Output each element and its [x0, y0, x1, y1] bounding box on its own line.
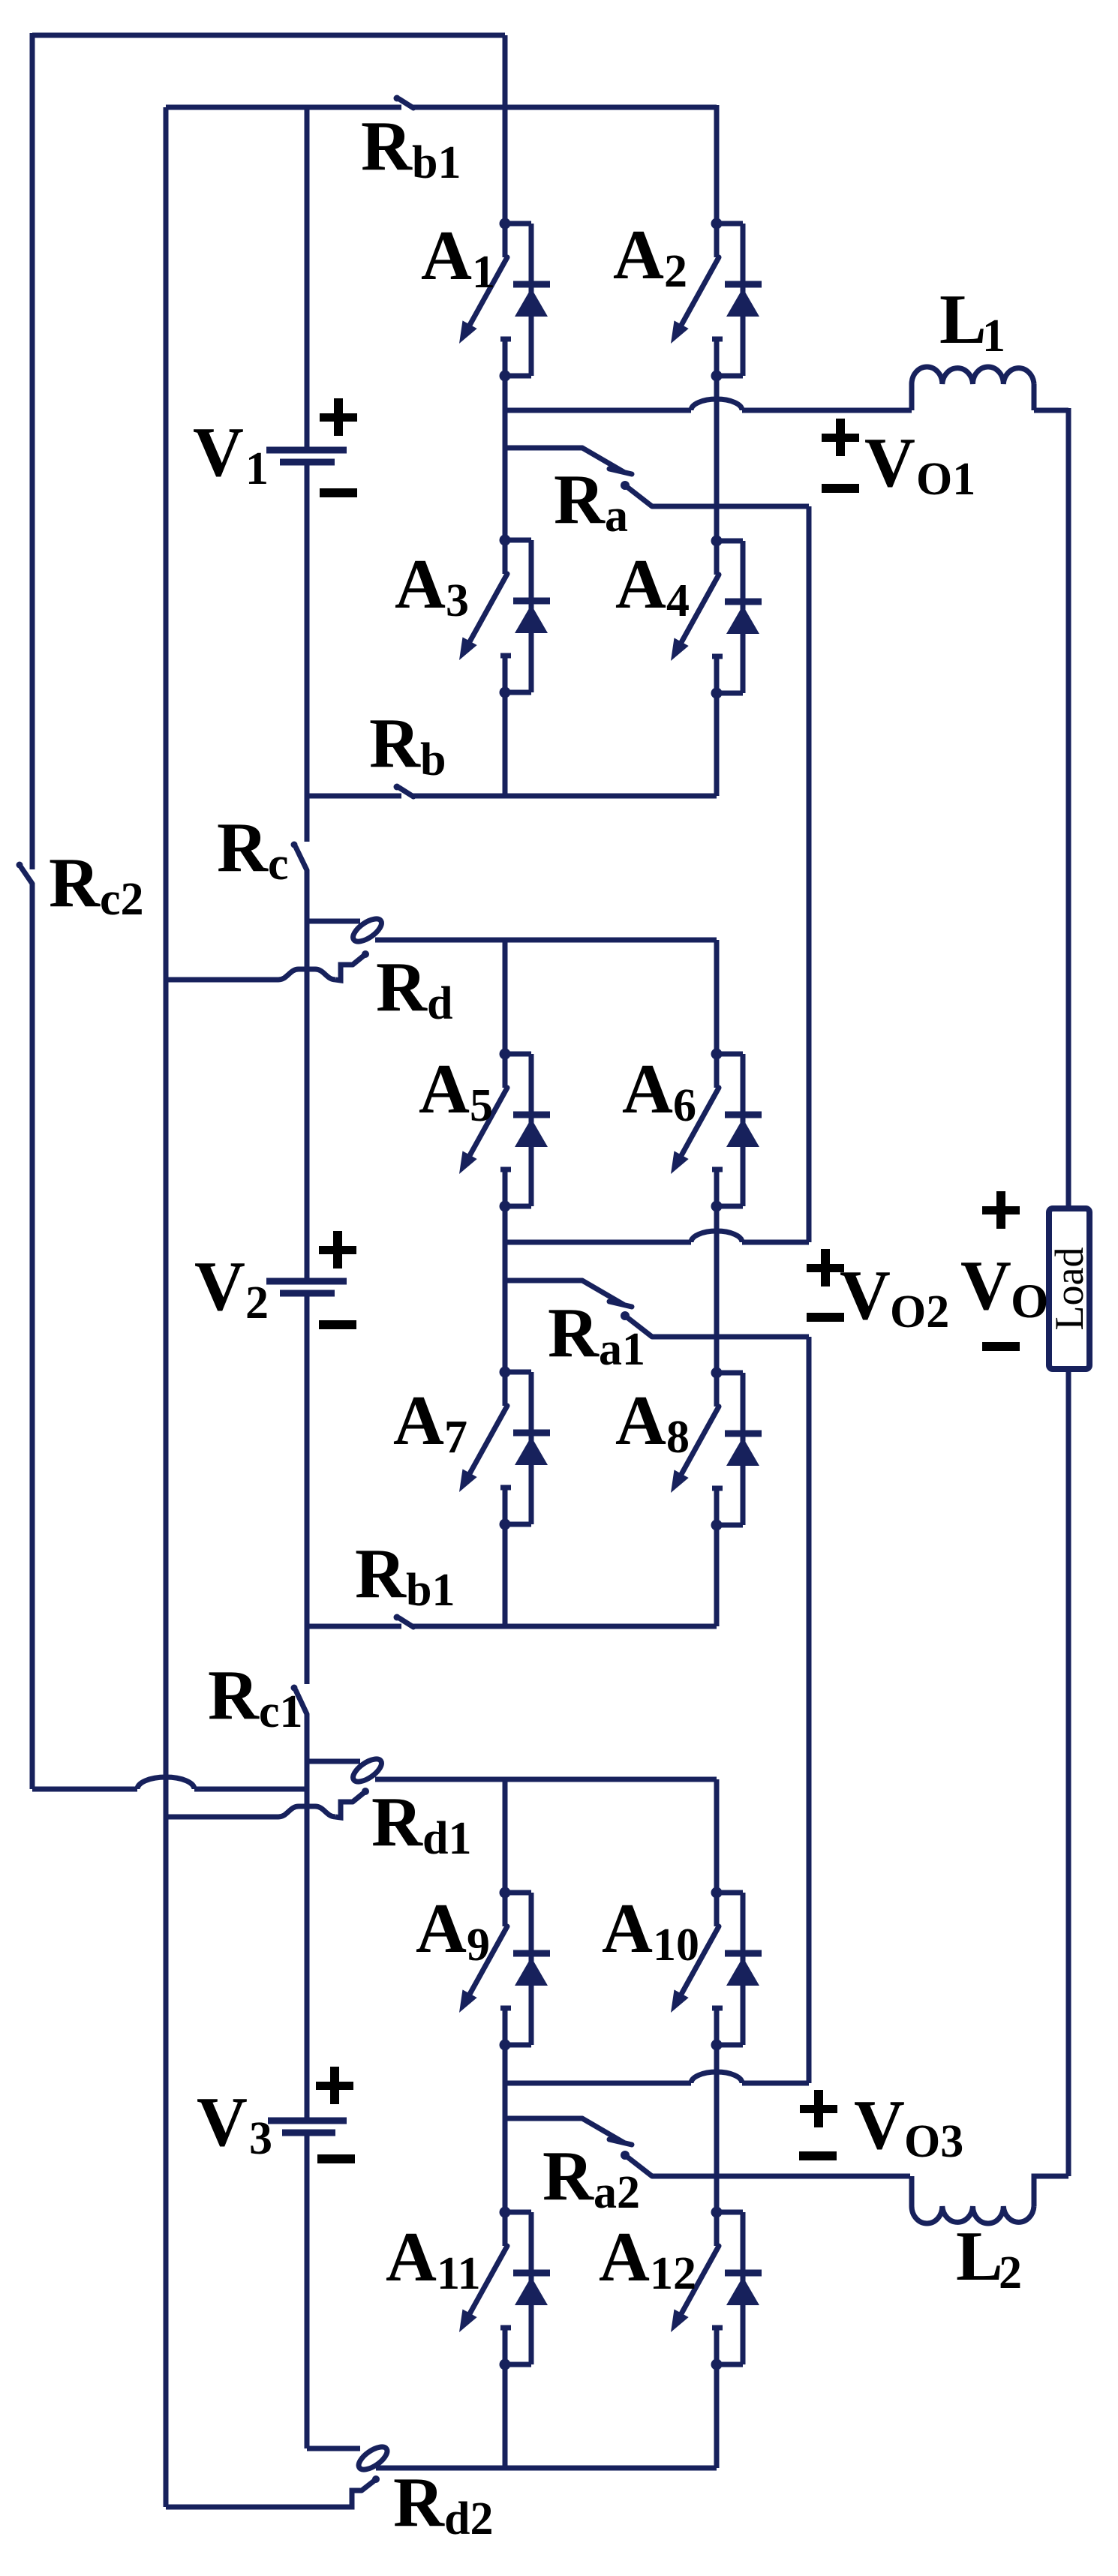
- VO1 minus sign: [822, 484, 859, 493]
- transistor A1: [459, 218, 550, 382]
- relay switch Rb1 (module2 bottom rail): [394, 1614, 414, 1628]
- wire right rail to load top: [1066, 408, 1071, 1208]
- transistor A6: [671, 1049, 762, 1212]
- wire line from Rc2 rail to battery column (hump over x221): [32, 1787, 137, 1792]
- wire Rd2 line from x221: [166, 2490, 362, 2507]
- transistor A5: [459, 1049, 550, 1212]
- wire A5 column drop: [503, 940, 508, 1054]
- wire out3 hop over x955: [691, 2072, 742, 2083]
- wire x673 A9-A11 link: [503, 2045, 508, 2212]
- wire A11 column to bottom rail: [503, 2364, 508, 2468]
- relay switch Rc1 (battery column): [291, 1685, 308, 1715]
- wire battery column Rc to V2: [305, 870, 310, 1278]
- wire L2 left riser: [909, 2176, 915, 2206]
- wire battery column Rc1 to V3: [305, 1714, 310, 2118]
- transistor A4: [671, 536, 762, 699]
- wire Rd line from x221: [166, 977, 278, 983]
- wire x673 A5-A7 link: [503, 1206, 508, 1372]
- wire Rd1 hump over x409: [278, 1806, 335, 1817]
- wire out1 to L1: [742, 408, 912, 413]
- relay switch Ra1 fixed contact: [582, 1280, 632, 1307]
- wire A4 column to Rb rail: [714, 692, 720, 796]
- wire module2 top rail: [375, 938, 717, 943]
- wire x955 A10-A12 link: [714, 2045, 720, 2212]
- battery V1 plus sign: [320, 398, 357, 436]
- wire L1 riser right: [1032, 384, 1037, 410]
- wire left outer rail x43 upper: [30, 33, 35, 869]
- relay switch Ra1 moving blade: [621, 1311, 652, 1337]
- relay switch Rb1 (top rail): [394, 95, 414, 109]
- transistor A7: [459, 1367, 550, 1530]
- wire line A hump over x221: [137, 1777, 194, 1789]
- wire out2 to series link: [742, 1240, 809, 1245]
- battery V2 plus sign: [319, 1231, 356, 1268]
- wire series link VO2- to VO3+: [807, 1337, 812, 2083]
- wire battery column V3 bottom to bottom loop: [305, 2136, 310, 2448]
- svg-text:Load: Load: [1047, 1247, 1092, 1331]
- load resistor box: [1049, 1208, 1089, 1369]
- wire A7 column to rail: [503, 1524, 508, 1626]
- wire Rb rail right: [412, 794, 717, 799]
- wire battery column V2 bottom to Rc1: [305, 1296, 310, 1684]
- wire Rd hump over x409: [278, 969, 335, 980]
- wire Ra out line: [652, 504, 809, 509]
- VO1 plus sign: [822, 419, 859, 456]
- wire battery column V1 top: [305, 107, 310, 447]
- battery V1 minus sign: [320, 488, 357, 497]
- wire A9 column drop: [503, 1779, 508, 1893]
- wire out3 left: [505, 2081, 691, 2086]
- relay switch Ra fixed contact: [582, 448, 632, 474]
- wire Rd1 step and blade lead: [335, 1802, 353, 1818]
- relay switch Rc2 (outer rail): [17, 862, 33, 884]
- VO3 plus sign: [800, 2090, 837, 2127]
- transistor A10: [671, 1887, 762, 2051]
- VO minus sign: [982, 1342, 1020, 1351]
- battery V2 minus sign: [319, 1320, 356, 1329]
- wire L1 to right rail: [1034, 408, 1068, 413]
- wire Rd1 line from x221: [166, 1815, 278, 1820]
- wire Ra2 out line to L2: [652, 2174, 910, 2179]
- battery V3 minus sign: [317, 2154, 355, 2163]
- VO3 minus sign: [799, 2151, 837, 2160]
- wire left outer rail x43 lower: [30, 884, 35, 1789]
- wire x673 top drop: [503, 35, 508, 224]
- wire battery column V1 bottom to Rb rail: [305, 465, 310, 842]
- relay switch Ra2 moving blade: [621, 2151, 652, 2176]
- wire A10 column drop: [714, 1779, 720, 1893]
- wire A3 column to Rb rail: [503, 692, 508, 796]
- wire x673 A1-A3 link: [503, 376, 508, 540]
- wire top rail y143 left of Rb1: [166, 105, 401, 110]
- battery V3 plus sign: [316, 2067, 353, 2104]
- transistor A12: [671, 2207, 762, 2370]
- wire Rd step and blade lead: [335, 965, 353, 980]
- relay switch Rb (module1 bottom rail): [394, 784, 414, 797]
- wire out2 hop over x955: [691, 1231, 742, 1242]
- battery V2: [266, 1281, 347, 1293]
- wire x955 A2-A4 link: [714, 376, 720, 541]
- relay switch Rd1 blade: [353, 1788, 369, 1802]
- wire x955 A6-A8 link: [714, 1206, 720, 1373]
- VO2 minus sign: [807, 1313, 844, 1322]
- relay switch Ra2 fixed contact: [582, 2118, 632, 2145]
- wire out1 left: [505, 408, 691, 413]
- wire x221 bottom corner: [164, 2504, 169, 2507]
- battery V3: [268, 2121, 347, 2133]
- wire inductor L1 coils: [912, 367, 1034, 384]
- wire out3 to series link: [742, 2081, 809, 2086]
- wire module3 top rail: [375, 1777, 717, 1782]
- wire top rail y47: [32, 33, 505, 38]
- wire series link VO1- to VO2+: [807, 506, 812, 1242]
- relay switch Ra moving blade: [621, 481, 652, 506]
- loop joint into bottom rail: [307, 2442, 391, 2474]
- transistor A11: [459, 2207, 550, 2370]
- transistor A3: [459, 535, 550, 698]
- wire Ra line left: [505, 446, 582, 451]
- VO plus sign: [982, 1191, 1020, 1229]
- VO2 plus sign: [807, 1249, 844, 1286]
- wire A8 column to rail: [714, 1524, 720, 1626]
- relay switch Rc (battery column): [291, 842, 308, 871]
- wire A2 column drop from rail: [714, 105, 720, 224]
- wire top rail y143 right of Rb1: [412, 105, 717, 110]
- wire Rb1 lower rail right: [412, 1624, 717, 1629]
- wire left rail x221: [164, 107, 169, 2507]
- transistor A2: [671, 218, 762, 382]
- wire load bottom to L2 line: [1066, 1369, 1071, 2176]
- wire Ra1 line left: [505, 1278, 582, 1283]
- wire inductor L2 coils: [912, 2206, 1034, 2223]
- wire Rb rail left: [307, 794, 401, 799]
- wire Ra1 out line: [652, 1335, 809, 1340]
- loop joint into module3 top rail: [307, 1755, 385, 1786]
- wire out2 left: [505, 1240, 691, 1245]
- wire out1 hop over x955: [691, 399, 742, 410]
- battery V1: [266, 450, 347, 462]
- wire bottom rail: [376, 2466, 717, 2471]
- wire L2 right riser: [1034, 2176, 1068, 2206]
- wire A6 column drop: [714, 940, 720, 1054]
- transistor A9: [459, 1887, 550, 2051]
- transistor A8: [671, 1368, 762, 1531]
- wire L1 riser left: [909, 384, 915, 410]
- wire Ra2 line left: [505, 2116, 582, 2121]
- wire line A right part: [194, 1787, 305, 1792]
- wire Rb1 lower rail left: [307, 1624, 401, 1629]
- relay switch Rd blade: [353, 950, 369, 965]
- wire A12 column to bottom rail: [714, 2364, 720, 2468]
- loop joint into module2 top rail: [307, 914, 385, 946]
- relay switch Rd2 blade: [362, 2475, 380, 2490]
